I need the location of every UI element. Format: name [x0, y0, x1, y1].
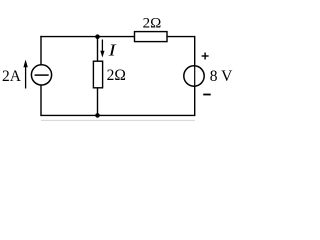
svg-text:8 V: 8 V [210, 68, 233, 85]
svg-text:2Ω: 2Ω [107, 67, 126, 84]
svg-text:I: I [107, 40, 117, 59]
svg-text:2Ω: 2Ω [143, 16, 162, 32]
svg-text:2A: 2A [2, 68, 22, 85]
